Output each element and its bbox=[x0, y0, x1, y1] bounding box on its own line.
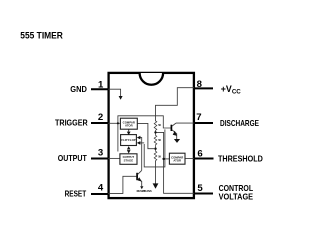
svg-text:TRIGGER: TRIGGER bbox=[55, 117, 88, 127]
ground arrow at pin1 bbox=[119, 96, 123, 100]
IC body U1 bbox=[109, 73, 194, 198]
svg-text:OUTPUT: OUTPUT bbox=[58, 153, 88, 163]
wire reset base from pin4 bbox=[108, 176, 136, 193]
pin 4 wire bbox=[91, 193, 108, 195]
pin 8 wire bbox=[194, 87, 213, 89]
wire comparator1 reference to node B bbox=[137, 123, 154, 148]
svg-text:THRESHOLD: THRESHOLD bbox=[218, 154, 263, 164]
transistor Q-discharge base bar bbox=[170, 125, 172, 131]
wire comp2 input stub bbox=[164, 158, 170, 160]
svg-text:4: 4 bbox=[98, 183, 104, 194]
svg-text:1: 1 bbox=[98, 79, 104, 90]
ground arrow reset emitter bbox=[140, 186, 143, 189]
svg-text:7: 7 bbox=[196, 112, 201, 123]
wire ff arrow2 stem bbox=[140, 142, 144, 144]
wire discharge collector to pin7 bbox=[176, 122, 194, 124]
transistor Q-reset emitter with arrow bbox=[138, 178, 142, 186]
svg-text:RESET: RESET bbox=[65, 188, 87, 198]
output stage box bbox=[120, 154, 137, 165]
pin 1 wire bbox=[91, 88, 108, 90]
wire node A to control voltage / pin5 bbox=[156, 132, 195, 193]
arrow flip-flop/output-stage up bbox=[127, 146, 131, 149]
svg-text:8: 8 bbox=[197, 79, 203, 90]
wire ff to reset collector vertical bbox=[140, 138, 142, 171]
svg-text:6: 6 bbox=[197, 148, 202, 159]
wire vcc staircase bbox=[156, 88, 195, 122]
svg-text:ATOR: ATOR bbox=[173, 158, 181, 162]
flip-flop box bbox=[121, 135, 137, 146]
comparator U-comp2 (threshold) box bbox=[169, 153, 185, 164]
svg-text:GND: GND bbox=[70, 84, 87, 94]
svg-text:VOLTAGE: VOLTAGE bbox=[219, 191, 254, 201]
wire pin3 to output stage bbox=[108, 157, 120, 159]
transistor Q-discharge collector diagonal bbox=[172, 123, 176, 126]
node B junction dot bbox=[154, 148, 156, 150]
wire comp2 to pin6 bbox=[185, 158, 194, 160]
svg-text:5K: 5K bbox=[158, 156, 161, 158]
comparator U-comp1 (trigger) box bbox=[120, 118, 137, 129]
svg-text:5K: 5K bbox=[158, 125, 161, 127]
wire ff output to discharge base bbox=[144, 129, 165, 167]
svg-text:5: 5 bbox=[197, 183, 203, 194]
transistor Q-reset base bar bbox=[136, 173, 138, 180]
pin 3 wire bbox=[91, 158, 108, 160]
pin 5 wire bbox=[194, 193, 213, 195]
resistor R (bottom 5K) bbox=[154, 149, 157, 162]
node A junction dot bbox=[154, 131, 156, 133]
ground arrow discharge emitter bbox=[174, 139, 180, 143]
node control voltage junction dot bbox=[162, 158, 164, 160]
svg-text:5K: 5K bbox=[158, 140, 161, 142]
svg-text:FLIP FLOP: FLIP FLOP bbox=[121, 138, 135, 142]
internal wires group bbox=[108, 88, 194, 194]
wire gnd internal bbox=[108, 89, 121, 96]
svg-text:DISCHARGE: DISCHARGE bbox=[220, 118, 259, 128]
svg-text:ATOR: ATOR bbox=[125, 124, 133, 128]
pin 7 wire bbox=[194, 122, 213, 124]
wire divider bottom to ground arrow bbox=[155, 161, 157, 184]
node pin2 junction dot bbox=[117, 122, 119, 124]
notch (pin-1 index semicircle) bbox=[140, 73, 164, 85]
svg-text:STAGE: STAGE bbox=[124, 158, 134, 162]
resistor R (top 5K) bbox=[154, 121, 157, 133]
arrow comparator1 to flip-flop bbox=[128, 129, 130, 131]
transistor Q-discharge emitter with arrow bbox=[172, 130, 177, 139]
pin 6 wire bbox=[194, 158, 214, 160]
svg-text:TRANS: TRANS bbox=[143, 190, 152, 193]
svg-text:555 TIMER: 555 TIMER bbox=[20, 31, 63, 42]
arrow into flip-flop right lower bbox=[137, 141, 141, 145]
svg-text:3: 3 bbox=[98, 147, 103, 158]
svg-text:2: 2 bbox=[98, 112, 103, 123]
pin 2 wire bbox=[91, 122, 108, 124]
transistor Q-reset collector diagonal bbox=[138, 170, 142, 174]
wire top rail (trigger bus) bbox=[118, 116, 171, 152]
ground arrow divider bottom bbox=[153, 183, 159, 188]
arrow into flip-flop right upper bbox=[137, 136, 141, 140]
arrow flip-flop/output-stage down bbox=[127, 150, 131, 153]
resistor R (middle 5K) bbox=[154, 132, 157, 148]
wire pin2 to comparator bbox=[108, 122, 120, 124]
